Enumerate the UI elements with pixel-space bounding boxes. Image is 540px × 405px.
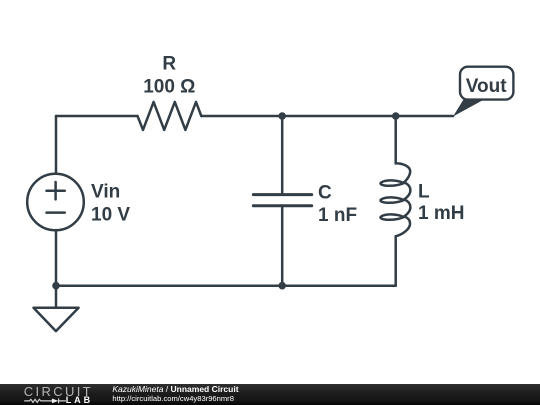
svg-text:Vin: Vin — [91, 182, 120, 203]
svg-text:100 Ω: 100 Ω — [143, 76, 195, 97]
junction dot ground node — [52, 282, 60, 290]
ground — [34, 308, 79, 331]
inductor L — [380, 116, 410, 286]
junction dot node top L — [392, 112, 400, 120]
svg-text:1 mH: 1 mH — [418, 203, 464, 224]
svg-text:R: R — [162, 53, 176, 74]
junction dot bottom C — [278, 282, 286, 290]
wire bottom rail — [56, 284, 396, 287]
wire top middle horizontal — [201, 115, 453, 118]
svg-text:10 V: 10 V — [91, 204, 130, 225]
junction dot node top C — [278, 112, 286, 120]
svg-text:http://circuitlab.com/cw4y83r9: http://circuitlab.com/cw4y83r96nmr8 — [112, 394, 234, 403]
svg-text:KazukiMineta / Unnamed Circuit: KazukiMineta / Unnamed Circuit — [112, 384, 238, 394]
svg-text:1 nF: 1 nF — [318, 205, 357, 226]
svg-text:C: C — [318, 182, 332, 203]
svg-text:LAB: LAB — [66, 395, 94, 405]
svg-text:Vout: Vout — [466, 76, 507, 97]
net flag Vout bubble — [460, 67, 513, 100]
wire top left horizontal — [56, 115, 138, 118]
capacitor C — [253, 116, 311, 286]
net flag Vout tail — [453, 100, 484, 117]
wire ground stub — [55, 286, 58, 308]
resistor R — [138, 102, 202, 130]
logo squiggle resistor-diode — [24, 398, 66, 403]
wire left rail top — [55, 116, 58, 174]
wire source bottom — [55, 230, 58, 285]
svg-text:L: L — [418, 182, 430, 203]
voltage source Vin — [27, 174, 84, 231]
